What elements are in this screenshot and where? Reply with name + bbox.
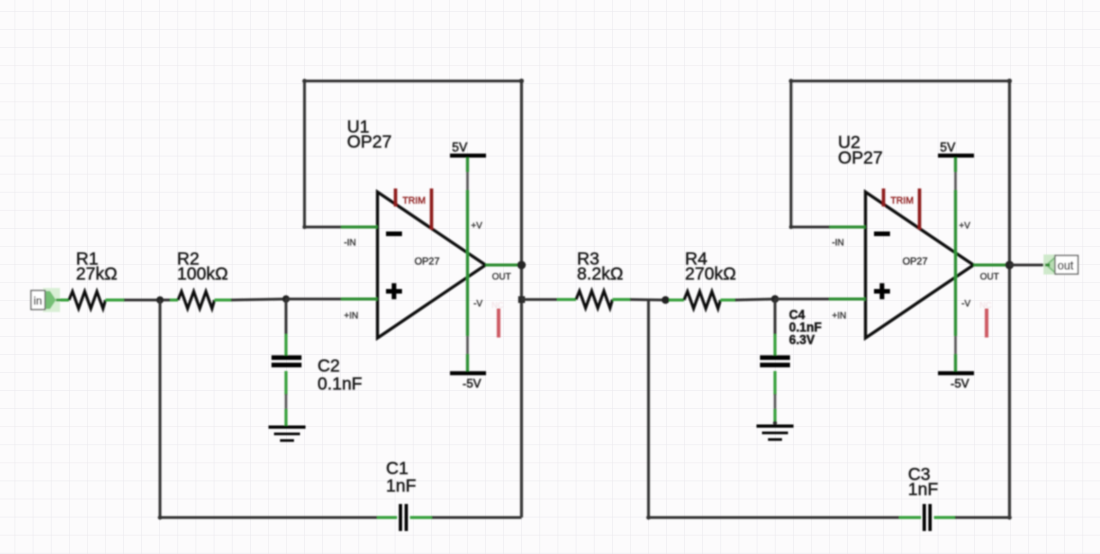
NC pin U2 — [980, 300, 992, 338]
capacitor C4 label 0.1nF 6.3V — [789, 308, 822, 347]
wire R4 to node D — [721, 299, 776, 300]
capacitor C3 — [923, 504, 932, 531]
svg-text:6.3V: 6.3V — [789, 333, 815, 347]
wire node A to R2 — [163, 299, 178, 302]
node A junction — [156, 296, 163, 303]
feedback wire U2: -IN up over to OUT — [789, 79, 1012, 518]
node C junction — [662, 296, 670, 304]
capacitor C1 — [399, 504, 408, 531]
resistor R2 label 100k — [177, 249, 228, 284]
svg-text:27kΩ: 27kΩ — [76, 264, 117, 284]
wire R3 to node C — [613, 298, 666, 302]
node B junction — [282, 295, 289, 302]
svg-text:in: in — [34, 296, 43, 308]
wire node D to U2 +IN — [775, 298, 830, 301]
NC pin U1 — [492, 300, 504, 338]
port out — [1044, 255, 1079, 275]
resistor R3 label 8.2k — [577, 249, 623, 284]
U2 OUT junction — [1005, 261, 1014, 270]
U1 OUT junction — [517, 261, 526, 270]
op-amp U2 label OP27 — [838, 132, 883, 168]
wire node C down to bottom rail stage 2 — [646, 300, 650, 520]
ground GND1 — [269, 426, 306, 442]
svg-text:C2: C2 — [318, 356, 340, 376]
resistor R1 label 27k — [76, 249, 117, 284]
wire node B to U1 +IN — [286, 298, 341, 301]
resistor R4 label 270k — [685, 249, 736, 284]
wire node B down to C2 — [285, 299, 288, 359]
wire U1 out to R3 — [522, 298, 577, 301]
wire R2 to node B — [215, 299, 287, 300]
svg-text:8.2kΩ: 8.2kΩ — [577, 264, 623, 284]
op-amp U1 — [341, 189, 522, 339]
resistor R2 — [178, 292, 215, 309]
capacitor C4 — [760, 355, 790, 367]
svg-text:out: out — [1058, 261, 1075, 273]
svg-text:270kΩ: 270kΩ — [685, 264, 736, 284]
capacitor C1 label 1nF — [386, 458, 416, 496]
port in — [31, 288, 60, 312]
svg-text:1nF: 1nF — [908, 479, 938, 499]
wire U2 out to port — [1010, 264, 1047, 267]
wire C4 to ground — [773, 371, 777, 425]
resistor R4 — [684, 292, 721, 309]
op-amp U2 — [829, 189, 1010, 339]
T junction to R3 — [518, 296, 525, 303]
resistor R1 — [69, 292, 106, 309]
wire node D down to C4 — [774, 299, 777, 359]
op-amp U1 label OP27 — [347, 117, 392, 152]
power rail U1 5V/-5V — [450, 141, 486, 391]
resistor R3 — [576, 291, 613, 308]
capacitor C2 — [272, 355, 302, 367]
svg-text:1nF: 1nF — [386, 476, 416, 496]
ground GND2 — [757, 425, 794, 441]
bottom feedback rail stage 2 — [649, 515, 1012, 519]
wire node C to R4 — [669, 299, 684, 302]
svg-text:OP27: OP27 — [838, 148, 883, 168]
power rail U2 5V/-5V — [938, 141, 974, 391]
feedback wire U1: -IN up over to OUT — [302, 79, 524, 518]
wire node A down to bottom rail — [158, 300, 162, 520]
wire C2 to ground — [285, 371, 288, 426]
svg-text:100kΩ: 100kΩ — [177, 264, 228, 284]
capacitor C3 label 1nF — [908, 464, 938, 499]
wire in to R1 — [56, 299, 69, 302]
wire R1 to node A — [106, 299, 161, 302]
svg-text:OP27: OP27 — [347, 132, 392, 152]
node D junction — [771, 295, 779, 303]
capacitor C2 label 0.1nF — [318, 356, 363, 394]
bottom feedback rail stage 1 — [160, 516, 522, 519]
svg-text:0.1nF: 0.1nF — [318, 374, 363, 394]
